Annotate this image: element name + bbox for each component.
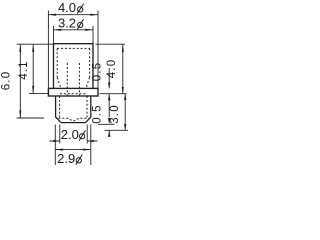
arrow 0.5 upper up (108, 94, 110, 100)
arrow 4.0phi left (49, 14, 56, 16)
extension line 2.0phi left (59, 125, 61, 144)
extension tick cap top right (96, 43, 126, 45)
lower shell bottom edge (61, 122, 86, 124)
arrow 0.5 lower up (108, 131, 110, 137)
arrow 2.0phi right (88, 140, 94, 142)
lower hole hidden right (86, 96, 88, 118)
dimension line 3.0 right (124, 94, 126, 131)
svg-text:2.9: 2.9 (57, 151, 75, 166)
extension line flange right / cap right (93, 11, 98, 89)
arrow 3.2phi left (54, 29, 61, 31)
lower shell left side 2.9phi (56, 96, 62, 123)
flange outline 4.0phi (48, 88, 98, 96)
hidden shoulder line with center dip (59, 118, 89, 121)
extension tick mid flange right (100, 93, 127, 95)
dimension line 4.0phi top (48, 14, 98, 16)
svg-text:4.1: 4.1 (18, 60, 30, 80)
dimension line 0.5 lower right lower leg (108, 130, 110, 137)
svg-text:0.5: 0.5 (92, 104, 104, 124)
extension line 2.0phi right (86, 125, 88, 144)
cap inner cavity hidden right wall (89, 48, 91, 77)
cavity taper hidden left (57, 78, 61, 89)
arrow 2.0phi left (53, 140, 59, 142)
svg-text:4.0: 4.0 (58, 0, 76, 15)
svg-text:3.2: 3.2 (58, 16, 76, 31)
arrow 0.5 lower down (108, 118, 110, 124)
arrow 0.5 upper down (108, 82, 110, 88)
dimension line 6.0 left (19, 44, 21, 118)
svg-text:2.0: 2.0 (61, 127, 79, 142)
cap inner cavity hidden top (57, 47, 89, 49)
extension tick 6.0 bottom (17, 117, 44, 119)
arrow 4.0R top (122, 44, 124, 51)
svg-text:6.0: 6.0 (1, 71, 13, 91)
extension tick 3.0 bottom right (105, 129, 129, 131)
svg-text:3.0: 3.0 (109, 104, 121, 124)
extension line 2.9phi left (54, 125, 56, 166)
dimension line 3.2phi top (54, 29, 94, 31)
arrow 4.1 top (32, 44, 34, 51)
arrow 3.0 top (124, 94, 126, 100)
arrow 6.0 top (19, 44, 21, 51)
cap body outline 3.2phi (54, 44, 94, 89)
arrow 2.9phi left (56, 149, 63, 151)
dimension line 0.5 upper right upper leg (108, 68, 110, 88)
arrow 2.9phi right (83, 149, 90, 151)
arrow 4.1 bottom (32, 86, 34, 93)
inner slot hidden right (78, 63, 80, 96)
extension tick 4.1 bottom (29, 92, 48, 94)
arrow 4.0phi right (90, 14, 97, 16)
dimension line 2.9phi (55, 149, 91, 151)
cap inner cavity hidden left wall (56, 48, 58, 77)
arrow 3.0 bottom (124, 124, 126, 130)
lower hole hidden left 2.0phi (59, 96, 61, 118)
arrow 6.0 bottom (19, 111, 21, 118)
extension tick cap top left (17, 43, 54, 45)
dimension line 2.0phi stubs (50, 140, 98, 142)
dimension line 0.5 upper right lower leg (108, 94, 110, 117)
extension line 2.9phi right (90, 125, 92, 166)
hidden hole bottom line in flange (60, 93, 87, 95)
svg-text:4.0: 4.0 (106, 59, 118, 79)
arrow 4.0R bottom (122, 87, 124, 94)
lower shell right side (86, 96, 91, 123)
svg-text:0.5: 0.5 (91, 62, 103, 82)
cavity taper hidden right (86, 78, 90, 89)
arrow 3.2phi right (85, 29, 92, 31)
extension tick bottom edge right (98, 123, 115, 125)
dimension line 4.1 left (32, 44, 34, 93)
inner slot hidden left (66, 63, 68, 96)
dimension line 4.0 right (122, 44, 124, 93)
extension line flange left (48, 11, 53, 89)
